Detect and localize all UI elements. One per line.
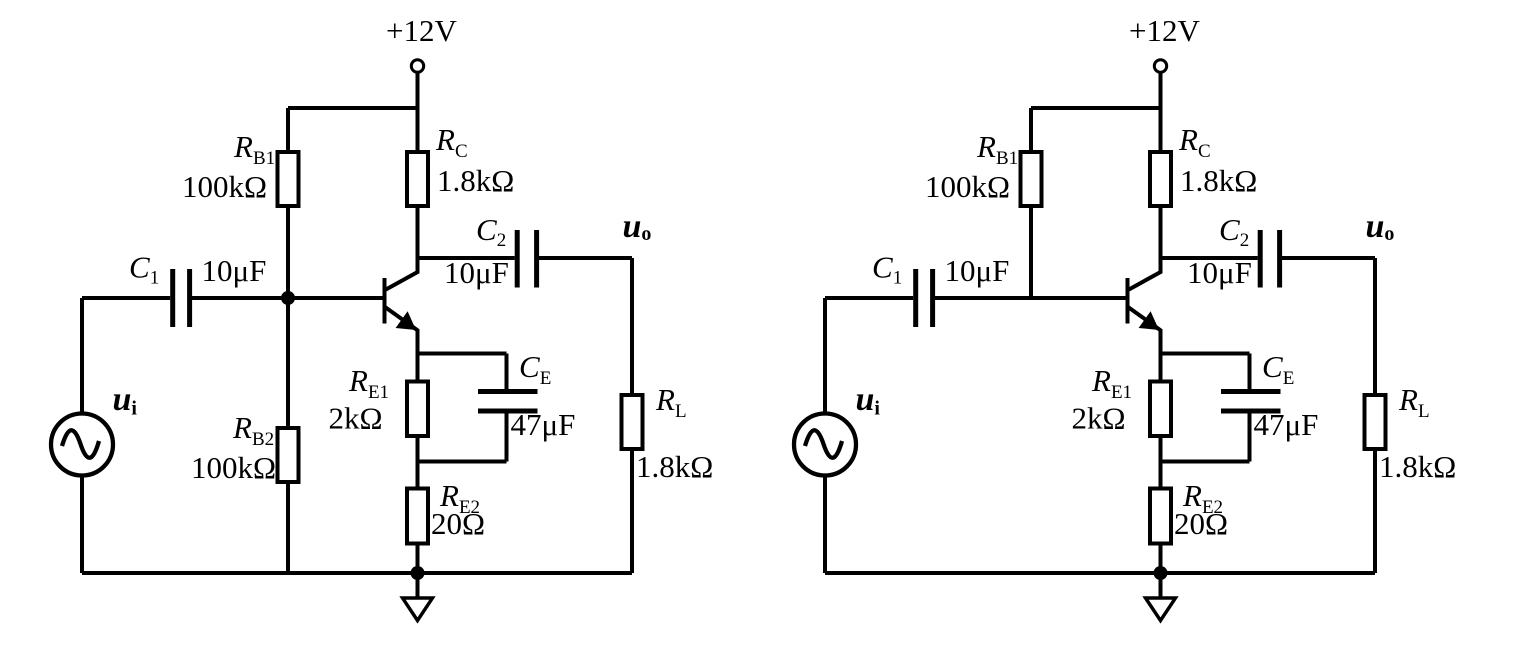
svg-text:100kΩ: 100kΩ [191,450,276,485]
